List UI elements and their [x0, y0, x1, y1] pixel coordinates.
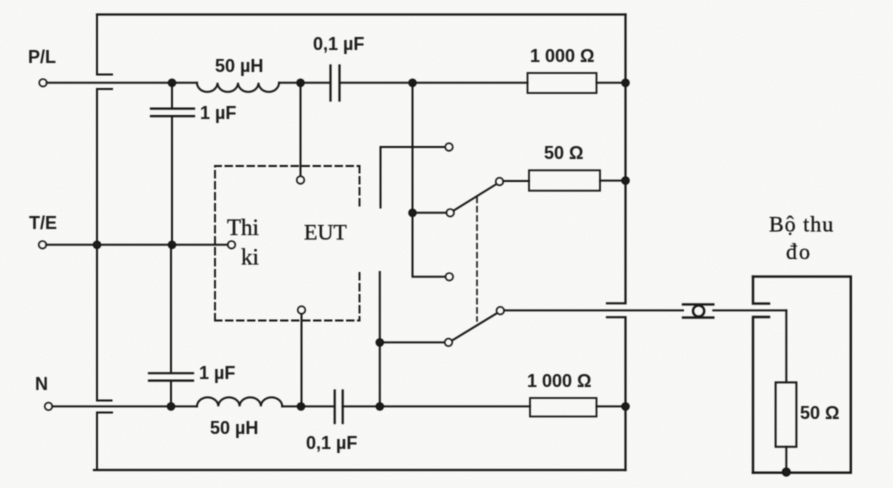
resistor R1 1000 ohm top body	[528, 73, 597, 93]
wire measuring tap vertical from P/L	[413, 83, 446, 277]
wire receiver internal vertical	[785, 310, 787, 382]
capacitor C1 1 µF top plates	[151, 109, 194, 117]
junction P/L at EUT branch	[297, 80, 304, 87]
terminal EUT top pin	[297, 176, 305, 184]
coax connector bars	[683, 304, 713, 317]
inductor L2 50 µH bottom	[197, 397, 282, 406]
receiver box left wall segments with hooks	[753, 277, 769, 473]
terminal EUT left pin	[228, 241, 236, 249]
junction N at switch branch	[377, 403, 384, 410]
junction P/L at C1	[169, 80, 176, 87]
junction receiver bottom	[783, 468, 790, 475]
terminal EUT bottom pin	[298, 306, 306, 314]
dashed mechanical link between switches	[476, 198, 478, 322]
LISN enclosure left wall middle segment with hooks	[97, 89, 112, 401]
switch S2 pole	[497, 307, 505, 315]
wire P/L line left	[47, 82, 197, 84]
switch S2 contact	[445, 339, 453, 347]
junction R3 at right wall	[622, 177, 629, 184]
terminal N	[45, 403, 53, 411]
terminal T/E	[39, 241, 47, 249]
wire plug bracket lower to N	[379, 272, 381, 406]
wire middle contact branch	[413, 212, 447, 214]
LISN enclosure right wall upper segment with hook	[607, 15, 626, 304]
junction N at EUT branch	[298, 403, 305, 410]
junction T/E at left wall	[94, 242, 101, 249]
wire resistor R4 to receiver bottom	[785, 447, 787, 473]
terminal P/L	[39, 79, 47, 87]
junction T/E at C1 branch	[169, 242, 176, 249]
wire resistor R1 to right wall	[597, 82, 626, 84]
wire EUT bottom feed	[301, 314, 303, 406]
receiver box top right bottom edges	[753, 277, 851, 473]
LISN enclosure left wall upper segment with hook	[97, 15, 112, 75]
EUT dashed box left top bottom edges	[215, 166, 360, 321]
wire measuring line to receiver	[504, 309, 683, 311]
junction N at C3	[168, 403, 175, 410]
junction measuring tap	[409, 210, 416, 217]
capacitor C3 1 µF bottom leads	[170, 245, 172, 407]
resistor R3 50 ohm body	[529, 170, 600, 190]
capacitor C4 0,1 µF bottom	[335, 391, 343, 424]
LISN enclosure bottom border	[94, 469, 626, 471]
junction P/L at switch branch	[409, 80, 416, 87]
wire N inductor to capacitor	[282, 405, 334, 407]
junction bottom switch branch	[377, 339, 384, 346]
switch S2 arm	[453, 313, 497, 340]
inductor L1 50 µH	[197, 83, 279, 92]
capacitor C3 1 µF bottom plates	[149, 373, 193, 380]
LISN enclosure top border	[97, 13, 626, 15]
switch S1 contact lower	[446, 273, 454, 281]
switch S1 contact top	[445, 143, 453, 151]
wire P/L inductor to capacitor	[279, 82, 330, 84]
wire resistor R2 to right wall	[597, 405, 626, 407]
wire EUT top feed	[300, 83, 302, 176]
LISN enclosure right wall lower segment with hook	[607, 317, 626, 470]
wire pole to 50 ohm resistor	[503, 180, 529, 182]
switch S1 pole	[496, 178, 504, 186]
capacitor C2 0,1 µF top	[331, 66, 340, 101]
resistor R4 50 ohm receiver body	[776, 382, 797, 446]
resistor R2 1000 ohm bottom body	[530, 398, 597, 417]
switch S1 contact middle	[446, 209, 454, 217]
coax connector circle	[693, 305, 704, 316]
wire N capacitor to resistor	[343, 405, 530, 407]
wire plug bracket upper	[381, 147, 446, 208]
capacitor C1 1 µF top leads	[171, 83, 173, 245]
EUT dashed box right edge segments	[359, 166, 361, 321]
junction N at right wall	[622, 403, 629, 410]
wire coax to receiver	[713, 309, 786, 311]
wire bottom switch contact branch	[380, 341, 445, 343]
wire resistor R3 to right wall	[600, 180, 626, 182]
wire T/E line	[46, 244, 227, 246]
switch S1 arm	[454, 184, 497, 210]
LISN enclosure left wall lower segment with hook	[97, 413, 112, 471]
wire N line left	[52, 405, 197, 407]
junction P/L at right wall	[622, 80, 629, 87]
wire P/L capacitor to resistor	[340, 82, 528, 84]
